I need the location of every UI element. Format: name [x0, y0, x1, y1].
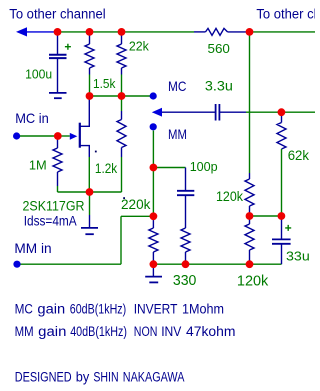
resistor R 1M zigzag	[53, 148, 62, 172]
junction: 22k / 1.2k node	[118, 92, 126, 100]
wire: MM node to 100p	[153, 167, 185, 169]
junction: 120k divider tap left	[246, 212, 254, 220]
resistor R 1M leads	[57, 136, 59, 148]
svg-text:2SK117GR: 2SK117GR	[23, 199, 85, 214]
wire: source rail y=192	[58, 191, 122, 193]
junction: MC in / gate / 1M	[54, 132, 62, 140]
capacitor C 33u polarity plus	[285, 225, 291, 231]
transistor Q1 channel bar	[79, 123, 81, 148]
terminal MM in (blue dot)	[13, 261, 20, 268]
resistor R 330 bottom lead	[185, 252, 187, 264]
resistor R 62k zigzag	[277, 123, 286, 150]
capacitor C 3.3u plates	[215, 104, 217, 121]
svg-text:560: 560	[208, 41, 230, 56]
resistor R 220k bottom lead	[152, 252, 154, 264]
wire: ground stub at bottom rail	[152, 264, 154, 276]
resistor R 22k zigzag	[117, 44, 126, 68]
svg-text:22k: 22k	[129, 39, 149, 54]
terminal MC (blue dot)	[150, 92, 157, 99]
wire: MC in	[20, 135, 58, 137]
resistor R 1.5k leads	[89, 32, 91, 44]
junction: bottom rail / 220k / ground	[150, 260, 158, 268]
junction: supply rail / 1.5k	[86, 28, 94, 36]
wire: 120k node row	[250, 215, 282, 217]
terminal MC in (blue dot)	[13, 132, 20, 139]
svg-text:MM: MM	[168, 126, 187, 142]
svg-text:120k: 120k	[237, 273, 269, 289]
wire: MC signal right of 3.3u (navy then green)	[219, 111, 246, 113]
resistor R 62k top lead	[281, 112, 283, 122]
svg-text:100p: 100p	[190, 159, 218, 174]
wire: bottom rail	[153, 263, 281, 265]
wire: MC signal from arrow to 3.3u	[162, 111, 216, 113]
svg-text:1M: 1M	[29, 158, 47, 173]
wire: MM in vertical riser	[120, 216, 122, 264]
transistor Q1 2SK117GR gate wire	[61, 135, 70, 137]
junction: MM node / 100p branch	[150, 164, 158, 172]
wire: ground stub below source rail	[89, 192, 91, 215]
wire: MM vertical	[152, 131, 154, 217]
resistor 560 (horizontal) leads	[194, 31, 206, 33]
junction: bottom rail / 120k lower	[246, 260, 254, 268]
wire: MM in to 220k node	[121, 215, 153, 217]
svg-text:100u: 100u	[25, 67, 52, 82]
ground (bottom)	[145, 276, 162, 278]
junction: MC signal / 62k	[278, 108, 286, 116]
wire: source to rail	[88, 157, 90, 192]
stray dot 2	[123, 197, 125, 199]
capacitor C 33u plates	[272, 238, 291, 240]
svg-text:Idss=4mA: Idss=4mA	[24, 213, 77, 228]
svg-text:MMgain40dB(1kHz)NONINV47kohm: MMgain40dB(1kHz)NONINV47kohm	[15, 324, 236, 339]
resistor 560 zigzag	[206, 28, 228, 35]
svg-text:To other channel: To other channel	[9, 7, 105, 22]
capacitor C 100p bottom lead	[185, 195, 187, 228]
resistor R 220k zigzag	[149, 228, 158, 252]
ground (under JFET source)	[81, 227, 98, 229]
junction: supply rail / 560 / 120k chain	[246, 28, 254, 36]
capacitor C 33u bottom lead	[281, 244, 283, 264]
junction: MM riser / 220k	[150, 212, 158, 220]
junction: 120k divider tap right / 33u	[278, 212, 286, 220]
capacitor C 100u plates	[49, 54, 67, 56]
capacitor C 100p top lead	[185, 168, 187, 191]
ground (under 100u)	[49, 92, 67, 94]
junction: bottom rail / 330	[182, 260, 190, 268]
junction: supply rail / 22k	[118, 28, 126, 36]
wire: 560 junction down to 120k	[249, 32, 251, 173]
svg-text:220k: 220k	[121, 196, 151, 212]
svg-text:MC in: MC in	[15, 110, 49, 126]
svg-text:33u: 33u	[286, 249, 310, 264]
transistor Q1 gate arrow	[70, 133, 78, 140]
transistor Q1 drain lead	[80, 96, 89, 126]
svg-text:MM in: MM in	[14, 240, 51, 256]
resistor R 120k (upper) leads	[249, 173, 251, 179]
terminal MM (blue dot)	[150, 123, 157, 130]
wire: top rail left (blue feed from arrow to first junction)	[26, 31, 58, 33]
wire: MM in	[21, 263, 122, 265]
resistor R 1.2k bottom lead	[121, 148, 123, 158]
arrow: to other channel (left, pointing left)	[16, 27, 27, 36]
junction: supply rail / 100u	[54, 28, 62, 36]
wire: top rail green right of 560 junction to edge	[250, 31, 316, 33]
svg-text:MC: MC	[168, 78, 186, 94]
svg-text:To other channel: To other channel	[256, 7, 315, 22]
resistor R 22k leads	[121, 32, 123, 44]
capacitor C 33u top lead	[281, 216, 283, 239]
capacitor C 100u polarity plus	[65, 44, 71, 50]
resistor R 1.5k zigzag	[85, 44, 94, 68]
stray dot 1	[95, 151, 97, 153]
resistor R 120k (upper) zigzag	[245, 179, 254, 206]
svg-text:330: 330	[173, 273, 197, 289]
capacitor C 100u top lead	[57, 32, 59, 55]
arrow: MC signal (pointing left)	[152, 108, 162, 117]
svg-text:3.3u: 3.3u	[205, 78, 233, 93]
svg-text:1.2k: 1.2k	[95, 161, 118, 176]
resistor R 1.2k zigzag	[117, 120, 126, 148]
svg-text:120k: 120k	[216, 189, 243, 204]
svg-text:62k: 62k	[288, 148, 310, 163]
svg-text:MCgain60dB(1kHz)INVERT1Mohm: MCgain60dB(1kHz)INVERT1Mohm	[15, 302, 224, 317]
capacitor C 100u bottom lead	[57, 58, 59, 93]
resistor R 120k (lower) zigzag	[245, 224, 254, 250]
svg-text:DESIGNEDbySHINNAKAGAWA: DESIGNEDbySHINNAKAGAWA	[15, 370, 185, 385]
capacitor C 100p plates	[177, 190, 194, 192]
resistor R 120k (lower) leads	[249, 216, 251, 224]
wire: top rail green 57.5 to 560	[58, 31, 195, 33]
wire: mid rail y=96 to MC terminal	[90, 95, 151, 97]
resistor R 220k top lead	[152, 216, 154, 228]
transistor Q1 source lead	[80, 146, 89, 157]
resistor R 1.2k top lead	[121, 96, 123, 111]
resistor R 330 zigzag	[181, 228, 190, 252]
svg-text:1.5k: 1.5k	[93, 76, 116, 91]
wire: 62k bottom to node	[281, 149, 283, 216]
junction: source rail / ground	[86, 188, 94, 196]
junction: 1.5k / drain node	[86, 92, 94, 100]
